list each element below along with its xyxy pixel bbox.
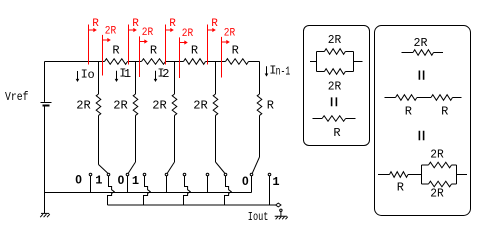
resistor R3 (series R on ladder) bbox=[184, 44, 206, 65]
diagram box: 2R parallel 2R equals R bbox=[304, 26, 370, 146]
svg-text:1: 1 bbox=[124, 67, 131, 81]
switch SW3 contact-0 pin to ground bus bbox=[207, 176, 209, 193]
switch SW4 (bit 4) arm and contact dots bbox=[250, 157, 271, 176]
svg-text:R: R bbox=[267, 99, 274, 113]
resistor 2R (bit 3 branch) bbox=[193, 94, 218, 116]
node annotation: current 2R at bit 0 (red) bbox=[103, 26, 117, 76]
svg-text:R: R bbox=[191, 44, 198, 58]
svg-text:2R: 2R bbox=[430, 147, 444, 161]
svg-text:2R: 2R bbox=[182, 28, 194, 40]
resistor 2R (box2 parallel bottom) bbox=[422, 181, 457, 200]
svg-text:2R: 2R bbox=[76, 99, 91, 113]
resistor R2 (series R on ladder) bbox=[142, 44, 166, 65]
svg-text:o: o bbox=[87, 68, 94, 82]
switch SW1 labels 0 and 1 bbox=[118, 173, 139, 188]
switch SW0 labels 0 and 1 bbox=[75, 172, 102, 187]
svg-text:2R: 2R bbox=[105, 26, 117, 38]
switch SW0 contact-0 pin to ground bus bbox=[90, 176, 92, 193]
svg-text:0: 0 bbox=[118, 173, 125, 187]
node annotation: current R at bit 2 (red) bbox=[166, 18, 177, 65]
node annotation: current 2R at bit 1 (red) bbox=[140, 27, 154, 77]
wire: ground bus (switch position 0 rail) bbox=[45, 192, 252, 194]
resistor 2R (box2 top) bbox=[402, 36, 444, 55]
svg-text:Iout: Iout bbox=[248, 210, 269, 224]
wire: branch node 0 from bus bbox=[98, 62, 100, 165]
svg-text:R: R bbox=[150, 44, 157, 58]
svg-text:2R: 2R bbox=[430, 187, 444, 201]
switch SW1 (bit 1) arm and contact dots bbox=[126, 162, 146, 176]
switch SW4 contact-0 pin to ground bus bbox=[251, 176, 253, 193]
ground (below battery) bbox=[40, 213, 50, 217]
svg-text:2R: 2R bbox=[193, 99, 208, 113]
wire: branch node 3 from bus bbox=[215, 62, 217, 163]
svg-text:1: 1 bbox=[95, 173, 102, 187]
wire: top bus from Vref bbox=[45, 61, 260, 63]
switch SW3 contact-1 pin hopping ground bus to Iout bus bbox=[225, 176, 232, 205]
wire: box2 parallel leads bbox=[422, 165, 468, 184]
node I0: current label bbox=[76, 67, 95, 82]
diagram box: 2R equals R+R equals R + 2R parallel 2R bbox=[375, 26, 471, 216]
svg-text:R: R bbox=[333, 126, 340, 140]
resistor 2R (bit 2 branch) bbox=[152, 94, 177, 116]
wire: branch node 1 from bus bbox=[135, 62, 137, 163]
switch SW1 contact-1 pin hopping ground bus to Iout bus bbox=[144, 176, 151, 205]
svg-text:2R: 2R bbox=[328, 79, 342, 93]
resistor R (box2 series right) bbox=[417, 95, 462, 119]
battery Vref bbox=[5, 90, 52, 106]
resistor 2R (bit 0 branch) bbox=[76, 94, 101, 116]
node In-1: current label bbox=[265, 64, 291, 79]
node annotation: current R at bit 1 (red) bbox=[129, 18, 140, 65]
svg-text:R: R bbox=[405, 105, 412, 119]
resistor R (terminating) bbox=[257, 94, 274, 116]
svg-text:R: R bbox=[112, 44, 119, 58]
svg-text:2R: 2R bbox=[414, 36, 428, 50]
node annotation: current R at bit 0 (red) bbox=[89, 18, 100, 65]
svg-text:R: R bbox=[132, 18, 139, 30]
node annotation: current 2R at bit 3 (red) bbox=[222, 28, 236, 78]
node: equivalence symbol box2 upper bbox=[419, 71, 423, 80]
svg-text:2R: 2R bbox=[328, 33, 342, 47]
switch SW2 (bit 2) arm and contact dots bbox=[165, 162, 186, 176]
wire: Vref branch from bus to battery bbox=[44, 62, 46, 102]
svg-text:Vref: Vref bbox=[5, 90, 29, 104]
wire: box1 parallel leads bbox=[310, 52, 363, 72]
resistor R (box2 bottom series) bbox=[378, 172, 422, 195]
switch SW0 (bit 0) arm and contact dots bbox=[89, 165, 110, 176]
resistor 2R (bit 1 branch) bbox=[113, 94, 138, 116]
node I1: current label bbox=[115, 66, 131, 82]
svg-text:R: R bbox=[232, 44, 239, 58]
resistor 2R (box1 parallel top) bbox=[317, 33, 354, 55]
svg-text:1: 1 bbox=[132, 174, 139, 188]
svg-text:0: 0 bbox=[242, 174, 249, 188]
svg-text:2R: 2R bbox=[113, 99, 128, 113]
node: equivalence symbol box1 bbox=[332, 97, 337, 106]
svg-text:2R: 2R bbox=[152, 99, 167, 113]
svg-text:R: R bbox=[169, 18, 176, 30]
node I2: current label bbox=[154, 67, 170, 83]
node annotation: current R at bit 3 (red) bbox=[208, 18, 219, 65]
resistor 2R (box1 parallel bottom) bbox=[317, 69, 354, 94]
wire: Iout bus (switch position 1 rail) bbox=[108, 203, 282, 207]
resistor R1 (series R on ladder) bbox=[105, 44, 128, 65]
svg-text:2: 2 bbox=[162, 67, 169, 81]
node Iout: output label bbox=[248, 210, 269, 224]
wire: bus right end down to terminator bbox=[259, 62, 261, 158]
resistor R4 (series R on ladder) bbox=[226, 44, 249, 65]
switch SW2 contact-0 pin to ground bus bbox=[166, 176, 168, 193]
node annotation: current 2R at bit 2 (red) bbox=[180, 28, 194, 78]
switch SW4 contact-1 pin straight to Iout bus bbox=[269, 176, 271, 205]
wire: battery negative down to ground bbox=[44, 107, 46, 214]
node: equivalence symbol box2 lower bbox=[419, 131, 423, 140]
svg-text:n-1: n-1 bbox=[276, 65, 291, 79]
svg-text:2R: 2R bbox=[224, 28, 236, 40]
ground (at Iout terminal) bbox=[275, 209, 288, 219]
svg-text:R: R bbox=[441, 105, 448, 119]
resistor R (box1 equivalent) bbox=[313, 116, 356, 140]
svg-text:0: 0 bbox=[75, 172, 82, 186]
switch SW4 labels 0 and 1 bbox=[242, 174, 280, 189]
svg-text:1: 1 bbox=[272, 175, 279, 189]
switch SW1 contact-0 pin to ground bus bbox=[127, 176, 129, 193]
switch SW0 contact-1 pin hopping ground bus to Iout bus bbox=[108, 176, 115, 205]
resistor R (box2 series left) bbox=[385, 95, 417, 119]
switch SW2 contact-1 pin hopping ground bus to Iout bus bbox=[184, 176, 191, 205]
svg-text:2R: 2R bbox=[142, 27, 154, 39]
svg-text:R: R bbox=[397, 181, 404, 195]
switch SW3 (bit 3) arm and contact dots bbox=[206, 162, 227, 176]
svg-text:R: R bbox=[211, 18, 218, 30]
resistor 2R (box2 parallel top) bbox=[422, 147, 457, 168]
svg-text:R: R bbox=[92, 18, 99, 30]
wire: branch node 2 from bus bbox=[174, 62, 176, 163]
